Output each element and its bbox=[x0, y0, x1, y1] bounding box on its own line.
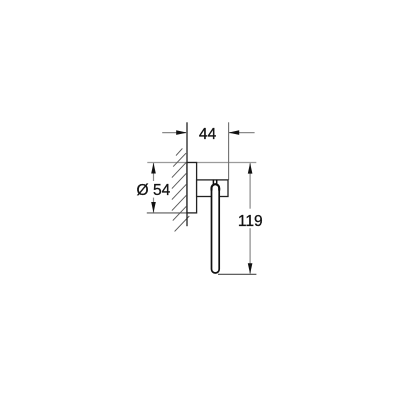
dim dia54 arrow up bbox=[151, 163, 156, 174]
dim dia54 line upper bbox=[153, 163, 155, 181]
dim 119 line lower bbox=[249, 228, 251, 273]
dim 44 line left bbox=[162, 132, 187, 134]
dim dia54 line lower bbox=[153, 198, 155, 213]
svg-text:119: 119 bbox=[238, 213, 263, 230]
holder bracket arm bbox=[197, 180, 228, 197]
dim 44 line right bbox=[229, 132, 255, 134]
extension line bottom of 119 bbox=[218, 273, 256, 275]
dim 119 arrow down bbox=[248, 263, 253, 274]
dim dia54 arrow down bbox=[151, 202, 156, 213]
svg-text:Ø 54: Ø 54 bbox=[136, 182, 170, 199]
wall line bbox=[186, 122, 188, 226]
paper holder pin (capsule) bbox=[212, 184, 220, 273]
pin head bold arc bbox=[212, 184, 220, 190]
dim 44 arrow left bbox=[176, 130, 187, 135]
dim 119 arrow up bbox=[248, 163, 253, 174]
wall plate (rosette side view) bbox=[187, 163, 197, 213]
dim 119 line upper bbox=[249, 163, 251, 209]
extension line top (shared by dia 54 and 119 dims) bbox=[147, 162, 256, 164]
pin neck right bbox=[216, 180, 218, 186]
svg-text:44: 44 bbox=[199, 126, 217, 143]
dim 44 arrow right bbox=[229, 130, 240, 135]
wall hatching bbox=[172, 148, 189, 231]
extension line bottom of dia 54 bbox=[147, 212, 197, 214]
pin neck left bbox=[212, 180, 214, 186]
extension line right of 44 bbox=[228, 122, 230, 180]
